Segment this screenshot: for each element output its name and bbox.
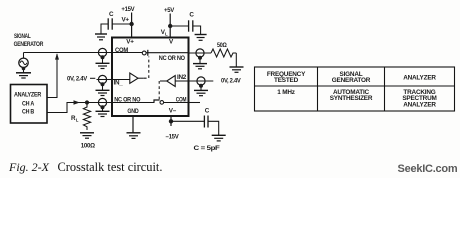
svg-text:Fig. 2-X: Fig. 2-X	[8, 160, 50, 174]
capacitor C2	[189, 20, 193, 31]
capacitor C1	[108, 18, 112, 29]
wire: COM (bottom right) stub	[189, 102, 201, 104]
ground (C3)	[212, 135, 226, 141]
svg-text:GENERATOR: GENERATOR	[332, 77, 371, 84]
svg-text:CH A: CH A	[22, 101, 35, 108]
label RL	[71, 115, 79, 123]
wire: R50 to ground	[235, 53, 237, 67]
connector J4 (top right jack)	[196, 49, 204, 63]
wire: analyzer CH B to node A (with right arrow)	[47, 100, 87, 112]
svg-text:1 MHz: 1 MHz	[277, 89, 294, 96]
svg-text:C = 5pF: C = 5pF	[194, 145, 221, 152]
wire: generator output to COM pin (top wire)	[24, 52, 113, 54]
svg-text:0V, 2.4V: 0V, 2.4V	[221, 78, 242, 85]
amplifier A1	[112, 73, 144, 83]
wire: NC-OR-NO pin to switch S2	[112, 102, 155, 104]
svg-text:0V, 2.4V: 0V, 2.4V	[67, 75, 88, 82]
svg-text:ANALYZER: ANALYZER	[403, 74, 436, 81]
label SIGNAL GENERATOR	[14, 33, 44, 48]
pin label VL (outside)	[161, 29, 168, 37]
ground (R50)	[230, 67, 244, 72]
svg-text:100Ω: 100Ω	[81, 143, 95, 150]
dashed control: A1 to S1	[144, 57, 149, 79]
connector J5 (IN2 jack)	[197, 77, 205, 90]
svg-text:V+: V+	[126, 39, 134, 46]
ground (J4)	[193, 64, 207, 69]
ground (RL)	[80, 133, 94, 138]
wire: IN2 pin stub	[189, 80, 214, 82]
wire: +15V to V+ pin	[131, 13, 133, 38]
ground (J5)	[194, 90, 208, 95]
node (V- junction dot)	[169, 119, 173, 123]
svg-text:V–: V–	[169, 108, 177, 115]
ground (J3)	[96, 111, 110, 116]
node (VL junction dot)	[168, 24, 172, 28]
svg-text:NC OR NO: NC OR NO	[159, 55, 185, 62]
node (V+ junction dot)	[129, 22, 133, 26]
wire: NC-OR-NO (top right) pin to 50 ohm resistor	[189, 52, 212, 54]
svg-text:V+: V+	[122, 16, 130, 23]
connector J3 (NC-OR-NO jack, lower left)	[98, 98, 106, 111]
wire: 0V,2.4V to IN- pin	[90, 77, 95, 79]
wire: C2 to ground	[193, 26, 201, 34]
svg-text:+5V: +5V	[164, 7, 175, 14]
ground (GND pin)	[127, 133, 141, 139]
svg-text:TESTED: TESTED	[274, 77, 299, 84]
svg-text:ANALYZER: ANALYZER	[403, 101, 436, 108]
ground (signal generator)	[16, 67, 31, 78]
wire: +5V to VL pin	[169, 14, 171, 38]
amplifier A2	[160, 76, 189, 87]
svg-text:SeekIC.com: SeekIC.com	[398, 163, 458, 175]
wire: C1 to ground	[101, 24, 108, 34]
op-amp U1 (IC outline)	[112, 38, 189, 117]
wire: V- pin stem	[170, 116, 172, 126]
analyzer box	[11, 85, 48, 124]
svg-text:L: L	[76, 118, 79, 123]
svg-text:GND: GND	[127, 108, 139, 115]
capacitor C3	[204, 116, 208, 128]
wire: V+ dot to capacitor C1	[112, 23, 131, 25]
svg-text:C: C	[109, 11, 114, 18]
svg-text:50Ω: 50Ω	[217, 42, 227, 49]
svg-text:GENERATOR: GENERATOR	[14, 41, 44, 48]
wire: switch S1 to NC-OR-NO pin (top right)	[146, 52, 188, 54]
switch S1	[142, 50, 148, 56]
svg-text:+15V: +15V	[121, 6, 135, 13]
connector J2 (IN- jack)	[98, 75, 106, 90]
svg-text:Crosstalk test circuit.: Crosstalk test circuit.	[58, 160, 163, 174]
resistor R50	[211, 49, 236, 57]
table (test conditions)	[255, 67, 455, 111]
svg-text:L: L	[165, 31, 168, 36]
connector J1 (COM input jack)	[98, 48, 106, 63]
svg-text:IN2: IN2	[177, 74, 187, 81]
wire: switch S2 to COM pin (bottom right)	[164, 102, 189, 104]
wire: analyzer CH A probe to top wire (with up arrow)	[47, 53, 59, 97]
dashed control: A2 to S2	[158, 81, 160, 99]
svg-text:V: V	[169, 39, 174, 46]
wire: C3 to ground	[208, 121, 219, 135]
svg-text:SIGNAL: SIGNAL	[14, 33, 31, 40]
wire: GND pin to ground	[132, 116, 134, 133]
svg-text:CH B: CH B	[22, 109, 35, 116]
wire: node A to NC-OR-NO pin	[87, 102, 112, 104]
svg-text:IN_: IN_	[114, 80, 124, 87]
label ANALYZER CH A CH B	[14, 92, 42, 116]
svg-text:C: C	[205, 107, 210, 114]
switch S2	[154, 100, 164, 104]
svg-text:C: C	[189, 11, 194, 18]
ground (J2)	[96, 90, 110, 95]
ground (C1)	[95, 34, 107, 40]
wire: COM pin to switch S1	[112, 52, 142, 54]
svg-text:SYNTHESIZER: SYNTHESIZER	[330, 95, 373, 102]
signal generator SG1	[19, 53, 28, 68]
ground (C2)	[195, 35, 207, 41]
svg-text:–15V: –15V	[166, 134, 180, 141]
node A (junction dot)	[85, 100, 89, 104]
ground (J1)	[96, 63, 110, 68]
resistor RL	[83, 104, 90, 130]
svg-text:ANALYZER: ANALYZER	[14, 92, 42, 99]
wire: V- dot to capacitor C3	[171, 120, 204, 122]
wire: VL dot to capacitor C2	[170, 25, 188, 27]
caption Fig. 2-X Crosstalk test circuit.	[8, 160, 162, 174]
